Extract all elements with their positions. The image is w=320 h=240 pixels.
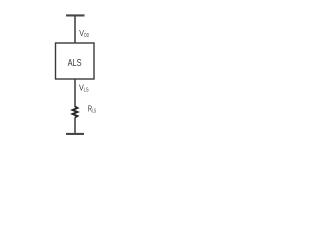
svg-text:DD: DD	[84, 33, 89, 39]
svg-text:LS: LS	[92, 108, 97, 114]
node VLS label	[79, 83, 89, 93]
wire from resistor to ground	[74, 118, 76, 134]
block U1 ALS	[56, 43, 95, 79]
wire from ALS box to resistor	[74, 79, 76, 107]
label RLS	[88, 105, 97, 115]
wire from VDD bar to ALS box	[74, 15, 76, 43]
svg-text:LS: LS	[84, 88, 90, 94]
label VDD	[79, 29, 89, 39]
svg-text:ALS: ALS	[68, 58, 82, 69]
ground bar	[66, 133, 84, 135]
resistor RLS zigzag	[73, 107, 78, 118]
power rail bar VDD	[66, 14, 85, 16]
